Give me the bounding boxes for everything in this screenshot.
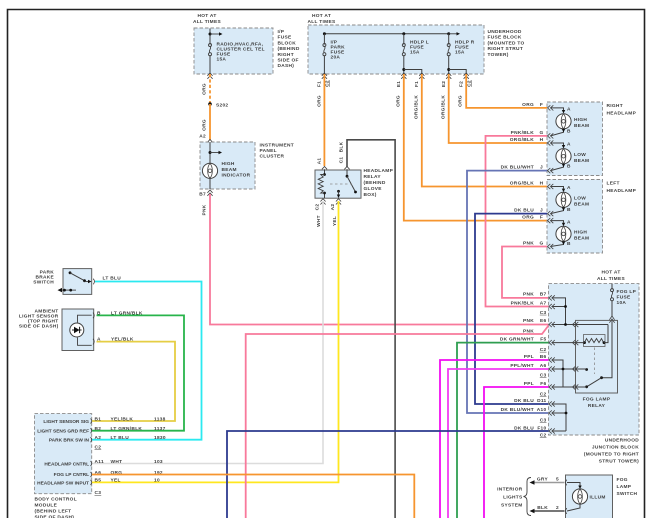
svg-text:B: B (567, 207, 571, 213)
svg-text:5: 5 (556, 476, 559, 482)
right high beam return B to G (551, 129, 572, 136)
svg-text:A: A (567, 185, 571, 191)
svg-text:INSTRUMENT: INSTRUMENT (260, 143, 294, 149)
svg-text:F6: F6 (540, 381, 546, 387)
svg-text:SYSTEM: SYSTEM (501, 503, 523, 509)
wire labels ORG F (left) (522, 214, 543, 220)
svg-text:B2: B2 (95, 426, 102, 432)
svg-text:BEAM: BEAM (574, 123, 589, 129)
left headlamp box (547, 180, 603, 254)
svg-text:2: 2 (556, 505, 559, 511)
svg-text:BLK: BLK (537, 505, 548, 511)
wire PNK cluster B7 to fog relay E6 (210, 194, 549, 325)
svg-text:ILLUM: ILLUM (590, 495, 606, 501)
svg-text:BEAM: BEAM (574, 202, 589, 208)
svg-text:LIGHTS: LIGHTS (503, 495, 523, 501)
svg-text:15A: 15A (217, 57, 227, 63)
BCM signal name labels (37, 419, 89, 486)
underhood fuse block box (308, 25, 484, 74)
illumination lamp return (567, 504, 580, 511)
wire color labels ORG / ORG/BLK (rotated) (317, 95, 464, 119)
svg-text:(MOUNTED TO RIGHT: (MOUNTED TO RIGHT (584, 452, 639, 458)
wire labels DK BLU J (514, 207, 543, 213)
fog relay power feed to switch pivot (602, 320, 613, 377)
svg-text:FOG: FOG (617, 477, 628, 483)
wire DK GRN/WHT from bottom to fog F5 (457, 343, 549, 518)
svg-text:LIGHT SENS GRD REF: LIGHT SENS GRD REF (37, 429, 89, 435)
svg-text:H: H (540, 180, 544, 186)
connector arrow into fog relay (609, 316, 614, 323)
svg-text:D11: D11 (537, 398, 546, 404)
svg-text:WHT: WHT (316, 215, 322, 227)
svg-text:10A: 10A (617, 300, 627, 306)
label UNDERHOOD JUNCTION BLOCK (MOUNTED TO RIGHT STRUT TOWER) (584, 438, 639, 465)
svg-text:15A: 15A (455, 50, 465, 56)
svg-text:RELAY: RELAY (364, 174, 382, 180)
svg-text:BEAM: BEAM (222, 167, 237, 173)
svg-text:C2: C2 (467, 80, 473, 87)
svg-text:LT BLU: LT BLU (111, 435, 130, 441)
BCM row B5 (95, 478, 160, 484)
park brake switch box (63, 269, 92, 295)
relay linkage dashes (330, 183, 352, 185)
BCM box (35, 414, 92, 494)
labels A YEL/BLK (97, 337, 134, 343)
wire ORG fuse F1 to headlamp relay A1 (323, 74, 325, 166)
svg-text:B7: B7 (540, 292, 547, 298)
svg-text:20A: 20A (331, 55, 341, 61)
svg-text:F: F (540, 102, 543, 108)
svg-text:H: H (540, 137, 544, 143)
svg-text:B7: B7 (199, 192, 206, 198)
fuse I/P PARK 20A (323, 34, 345, 74)
wire GRY with off-page arrow (530, 476, 565, 484)
svg-text:SWITCH: SWITCH (33, 280, 54, 286)
wire (black) inside I/P fuse block (209, 29, 211, 75)
svg-text:PPL: PPL (524, 354, 534, 360)
connector right headlamp J (548, 168, 554, 173)
svg-text:F1: F1 (317, 81, 323, 87)
wire labels DK BLU/WHT J (501, 164, 543, 170)
svg-text:FOG LP: FOG LP (617, 289, 637, 295)
svg-text:FOG LAMP: FOG LAMP (583, 397, 611, 403)
left high beam feed A (551, 219, 572, 226)
fog block row F6 (524, 381, 587, 390)
svg-text:YEL/BLK: YEL/BLK (111, 416, 134, 422)
fog block row A10 (501, 407, 568, 416)
wire WHT relay C2 to BCM A11 (92, 201, 323, 464)
wire ORG/BLK fuse E2 to right headlamp H (449, 74, 547, 143)
connector park brake switch out (93, 279, 94, 285)
svg-text:DK BLU: DK BLU (514, 207, 534, 213)
labels B LT GRN/BLK (97, 311, 143, 317)
wire BLK with off-page arrow (530, 505, 565, 513)
wire YEL relay A2 to BCM B5 (92, 201, 339, 482)
connector left headlamp J (548, 211, 554, 216)
right high beam feed A (551, 107, 572, 114)
sensor inner rect (78, 315, 92, 345)
connector left headlamp H (548, 184, 554, 189)
connector right headlamp F (548, 105, 554, 110)
svg-text:ALL TIMES: ALL TIMES (597, 276, 625, 282)
svg-text:PPL: PPL (524, 381, 534, 387)
relay switch (346, 170, 357, 193)
fog relay coil feed from E6 (604, 325, 608, 343)
svg-text:FOG LP CNTRL: FOG LP CNTRL (54, 472, 89, 478)
svg-text:J: J (540, 164, 543, 170)
svg-text:SIDE OF DASH): SIDE OF DASH) (19, 324, 59, 330)
svg-text:(MOUNTED TO: (MOUNTED TO (488, 40, 525, 46)
svg-text:PNK: PNK (523, 292, 534, 298)
connector at I/P fuse block bottom (207, 73, 212, 79)
fog block row F10 (514, 425, 566, 433)
svg-text:A11: A11 (95, 459, 104, 465)
left low beam return B to J (551, 207, 572, 214)
svg-text:HIGH: HIGH (574, 230, 587, 236)
fuse HDLP R 15A (447, 34, 475, 74)
fog block row A6 (510, 363, 586, 372)
svg-text:ORG: ORG (522, 214, 534, 220)
svg-text:ORG: ORG (458, 95, 464, 107)
svg-text:BLOCK: BLOCK (278, 40, 297, 46)
label HOT AT ALL TIMES (middle) (308, 13, 336, 25)
svg-text:ORG: ORG (202, 83, 208, 95)
svg-text:FUSE: FUSE (617, 295, 631, 301)
svg-text:UNDERHOOD: UNDERHOOD (488, 29, 522, 35)
label RIGHT HEADLAMP (607, 103, 637, 117)
BCM row A11 (95, 459, 163, 465)
splice S202 (208, 102, 228, 108)
svg-text:RIGHT: RIGHT (607, 103, 623, 109)
svg-text:FUSE: FUSE (278, 35, 292, 41)
svg-text:C1: C1 (339, 157, 345, 164)
label HOT AT ALL TIMES (right) (597, 270, 625, 283)
svg-text:A1: A1 (317, 158, 323, 165)
svg-text:B6: B6 (540, 354, 547, 360)
svg-text:SWITCH: SWITCH (617, 491, 638, 497)
svg-text:G: G (539, 240, 543, 246)
svg-text:C2: C2 (325, 80, 331, 87)
wire PPL from bottom to fog F6 (484, 387, 549, 518)
svg-text:DASH): DASH) (278, 63, 295, 69)
left low beam lamp (556, 192, 571, 207)
svg-text:A: A (567, 107, 571, 113)
svg-text:HEADLAMP CNTRL: HEADLAMP CNTRL (44, 461, 89, 467)
svg-text:A7: A7 (540, 300, 547, 306)
svg-text:F: F (540, 214, 543, 220)
svg-text:LT GRN/BLK: LT GRN/BLK (111, 426, 143, 432)
left high beam lamp (556, 226, 571, 241)
wire ORG fuse E1 to left headlamp F (404, 74, 547, 221)
svg-text:PANEL: PANEL (260, 148, 277, 154)
svg-text:HEADLAMP: HEADLAMP (364, 168, 394, 174)
svg-text:B: B (567, 163, 571, 169)
fog relay coil (583, 339, 605, 345)
ambient light sensor box (62, 309, 94, 351)
connector fog switch 5 (566, 480, 567, 486)
svg-text:B1: B1 (95, 416, 102, 422)
svg-text:UNDERHOOD: UNDERHOOD (605, 438, 639, 444)
svg-text:FUSE BLOCK: FUSE BLOCK (488, 35, 522, 41)
svg-text:A2: A2 (95, 435, 102, 441)
right high beam lamp (556, 114, 571, 129)
svg-text:JUNCTION BLOCK: JUNCTION BLOCK (592, 445, 639, 451)
label FOG LAMP SWITCH (617, 477, 638, 497)
bus wire with junction dots and arrow (323, 32, 460, 35)
svg-text:C2: C2 (95, 445, 102, 451)
svg-text:LOW: LOW (574, 196, 586, 202)
BCM edge connectors (91, 419, 92, 485)
wire DK BLU left headlamp J to fog D11 (475, 214, 549, 404)
connector left headlamp F (548, 218, 554, 223)
label INSTRUMENT PANEL CLUSTER (260, 143, 294, 160)
branch HDLP L to F1 (402, 68, 422, 74)
svg-text:A: A (567, 142, 571, 148)
svg-text:C3: C3 (95, 490, 102, 496)
wire labels ORG/BLK H (left) (510, 180, 544, 186)
label HEADLAMP RELAY (BEHIND GLOVE BOX) (364, 168, 394, 198)
svg-text:HEADLAMP: HEADLAMP (607, 188, 637, 194)
photodiode (70, 323, 84, 337)
svg-text:BLK: BLK (339, 141, 345, 152)
connector at cluster top (207, 140, 212, 146)
fog block row D11 (514, 398, 566, 431)
svg-text:C2: C2 (540, 433, 547, 439)
park brake switch contacts (69, 271, 92, 283)
wire DK BLU/WHT right headlamp J to fog A10 (467, 171, 549, 413)
BCM pin/color/circuit labels row B1 (95, 416, 166, 422)
svg-text:LAMP: LAMP (617, 484, 632, 490)
wire ORG fuse F2 to right headlamp F (466, 74, 547, 108)
svg-text:A6: A6 (540, 363, 547, 369)
connector at cluster bottom, pin B7 (207, 190, 212, 196)
park brake switch ground leg (58, 288, 77, 292)
svg-text:BODY CONTROL: BODY CONTROL (35, 497, 77, 503)
svg-text:ALL TIMES: ALL TIMES (308, 19, 336, 25)
fog lamp relay box (576, 320, 618, 393)
connector sensor A (93, 339, 94, 345)
wire LT BLU park brake to BCM A2 (92, 282, 202, 440)
svg-text:PNK/BLK: PNK/BLK (511, 300, 535, 306)
wire labels PNK/BLK G (511, 130, 544, 136)
svg-text:1137: 1137 (154, 426, 166, 432)
underhood junction block box (549, 284, 640, 435)
svg-text:I/P: I/P (278, 29, 285, 35)
fog relay linkage dashes (594, 348, 596, 375)
pin label C1 BLK (rotated) (339, 141, 345, 163)
node with arrow in cluster (209, 151, 223, 154)
connector relay A1 (322, 167, 327, 173)
svg-text:LEFT: LEFT (607, 181, 620, 187)
fog relay switch (585, 376, 603, 388)
svg-text:BOX): BOX) (364, 192, 377, 198)
svg-text:15A: 15A (410, 50, 420, 56)
svg-text:CLUSTER: CLUSTER (260, 154, 285, 160)
high beam indicator lamp (202, 163, 217, 178)
wire PPL/WHT from bottom to fog A6 (448, 369, 549, 518)
svg-text:(BEHIND LEFT: (BEHIND LEFT (35, 509, 72, 515)
svg-text:PNK/BLK: PNK/BLK (511, 130, 535, 136)
connector right headlamp H (548, 140, 554, 145)
svg-text:C3: C3 (540, 372, 547, 378)
svg-text:1830: 1830 (154, 435, 166, 441)
right low beam feed A (551, 142, 572, 149)
svg-text:DK BLU: DK BLU (514, 398, 534, 404)
svg-text:ORG: ORG (317, 95, 323, 107)
svg-text:E6: E6 (540, 318, 546, 324)
fuse RADIO/HVAC 15A (209, 44, 212, 56)
svg-text:S202: S202 (216, 103, 228, 109)
svg-text:ORG/BLK: ORG/BLK (510, 180, 534, 186)
svg-text:RIGHT: RIGHT (278, 52, 294, 58)
label UNDERHOOD FUSE BLOCK (MOUNTED TO RIGHT STRUT TOWER) (488, 29, 525, 58)
connector relay C1 (344, 167, 349, 173)
svg-text:ORG: ORG (522, 102, 534, 108)
svg-text:G: G (539, 130, 543, 136)
svg-text:A: A (567, 219, 571, 225)
svg-text:ALL TIMES: ALL TIMES (193, 19, 221, 25)
I/P fuse block box (194, 28, 273, 74)
svg-text:E1: E1 (396, 81, 402, 87)
ILLUM lamp (572, 489, 587, 504)
svg-text:LIGHT SENSOR SIG: LIGHT SENSOR SIG (43, 419, 89, 425)
fog block row B6 (524, 354, 563, 387)
fog block row E6 (523, 318, 608, 327)
svg-text:HEADLAMP SW INPUT: HEADLAMP SW INPUT (37, 480, 89, 486)
svg-text:ORG: ORG (202, 119, 208, 131)
connector left headlamp G (548, 244, 554, 249)
label BODY CONTROL MODULE (BEHIND LEFT SIDE OF DASH) (35, 497, 77, 518)
wire labels PNK G (left) (523, 240, 544, 246)
svg-text:C2: C2 (540, 392, 547, 398)
pin labels C2 A2 (rotated) (315, 204, 337, 211)
label FOG LAMP RELAY (583, 397, 611, 410)
wire PPL from bottom to fog B6 (440, 360, 549, 518)
svg-text:SIDE OF DASH): SIDE OF DASH) (35, 515, 75, 518)
left high beam return B to G (551, 241, 572, 247)
svg-text:(BEHIND: (BEHIND (364, 180, 386, 186)
svg-text:1138: 1138 (154, 416, 166, 422)
svg-text:DK BLU/WHT: DK BLU/WHT (501, 164, 534, 170)
BCM row A6 (95, 470, 163, 476)
svg-text:YEL: YEL (111, 478, 121, 484)
svg-text:E2: E2 (441, 81, 447, 87)
wire ORG BCM A6 down off-page (92, 475, 414, 518)
pin labels F1 C2 E1 F1 E2 F2 C2 (rotated) (317, 80, 473, 87)
svg-text:PPL/WHT: PPL/WHT (510, 363, 534, 369)
svg-text:A10: A10 (537, 407, 547, 413)
wire color labels WHT YEL (rotated) (316, 215, 338, 227)
wire DK BLU from bottom to fog F10 (227, 431, 549, 518)
right headlamp box (547, 102, 603, 176)
BCM row A2 (95, 435, 166, 441)
relay coil (318, 170, 326, 198)
svg-text:BEAM: BEAM (574, 236, 589, 242)
svg-text:C3: C3 (540, 417, 547, 423)
headlamp relay box (315, 170, 361, 198)
svg-text:C3: C3 (540, 310, 547, 316)
svg-text:PARK BRK SW IN: PARK BRK SW IN (49, 438, 90, 444)
BCM row B2 (95, 426, 166, 432)
svg-text:F5: F5 (540, 336, 546, 342)
svg-text:HOT AT: HOT AT (601, 270, 620, 276)
wire ORG (dashed) fuse to S202 (209, 74, 211, 104)
svg-text:(BEHIND: (BEHIND (278, 46, 300, 52)
connectors at underhood fuse block bottom (322, 73, 469, 79)
fog block row F5 (500, 336, 585, 345)
svg-text:WHT: WHT (111, 459, 123, 465)
right low beam lamp (556, 149, 571, 164)
svg-text:HOT AT: HOT AT (197, 13, 216, 19)
svg-text:HOT AT: HOT AT (312, 13, 331, 19)
svg-text:J: J (540, 207, 543, 213)
svg-text:DK BLU/WHT: DK BLU/WHT (501, 407, 534, 413)
wire PNK/BLK right headlamp G to fog A7 (486, 136, 549, 307)
svg-text:ORG/BLK: ORG/BLK (441, 95, 447, 119)
instrument panel cluster box (200, 142, 255, 189)
svg-text:PNK: PNK (202, 204, 208, 215)
svg-text:F1: F1 (414, 81, 420, 87)
wire labels ORG/BLK H (510, 137, 544, 143)
svg-text:STRUT TOWER): STRUT TOWER) (599, 459, 639, 465)
connector sensor B (93, 313, 94, 319)
label AMBIENT LIGHT SENSOR (TOP RIGHT SIDE OF DASH) (19, 309, 59, 330)
svg-text:B5: B5 (95, 478, 102, 484)
connectors below relay C2 A2 (320, 199, 325, 205)
svg-text:PNK: PNK (523, 318, 534, 324)
svg-text:C2: C2 (315, 204, 321, 211)
svg-text:B: B (567, 129, 571, 135)
svg-text:RIGHT STRUT: RIGHT STRUT (488, 46, 524, 52)
svg-text:ORG: ORG (396, 95, 402, 107)
svg-text:DK GRN/WHT: DK GRN/WHT (500, 336, 534, 342)
fog lp fuse (611, 284, 637, 316)
wire PNK fog lamp feed from bottom (246, 326, 549, 518)
right low beam return B to J (551, 163, 572, 170)
wire LT GRN/BLK sensor B to BCM B2 (92, 315, 184, 430)
node at fuse top with arrow (209, 32, 223, 35)
relay contact to A2 with arrow (337, 190, 340, 198)
svg-text:A2: A2 (199, 134, 206, 140)
svg-text:HIGH: HIGH (574, 117, 587, 123)
brace for interior lights system (524, 478, 532, 516)
svg-text:LOW: LOW (574, 152, 586, 158)
svg-text:GRY: GRY (537, 476, 549, 482)
svg-text:YEL: YEL (332, 216, 338, 226)
fog block row A7 (511, 300, 567, 309)
label I/P FUSE BLOCK (BEHIND RIGHT SIDE OF DASH) (278, 29, 300, 69)
label HOT AT ALL TIMES (left) (193, 13, 221, 25)
connector right headlamp G (548, 133, 554, 138)
svg-text:HIGH: HIGH (222, 161, 235, 167)
svg-text:HEADLAMP: HEADLAMP (607, 111, 637, 117)
connector fog switch 2 (566, 508, 567, 514)
svg-text:F2: F2 (459, 81, 465, 87)
wire inside cluster (209, 142, 211, 189)
label INTERIOR LIGHTS SYSTEM (497, 487, 523, 509)
svg-text:MODULE: MODULE (35, 503, 58, 509)
svg-text:RELAY: RELAY (588, 403, 606, 409)
branch HDLP R to F2 (447, 68, 466, 74)
illumination lamp feed (567, 483, 582, 490)
fuse HDLP L 15A (402, 34, 429, 74)
wire labels ORG F (522, 102, 543, 108)
label PARK BRAKE SWITCH (33, 270, 54, 286)
wire ORG/BLK fuse F1 to left headlamp H (422, 74, 547, 187)
svg-text:A2: A2 (330, 204, 336, 211)
fog relay coil box (584, 335, 606, 347)
wire ORG S202 to cluster A2 (209, 104, 211, 140)
